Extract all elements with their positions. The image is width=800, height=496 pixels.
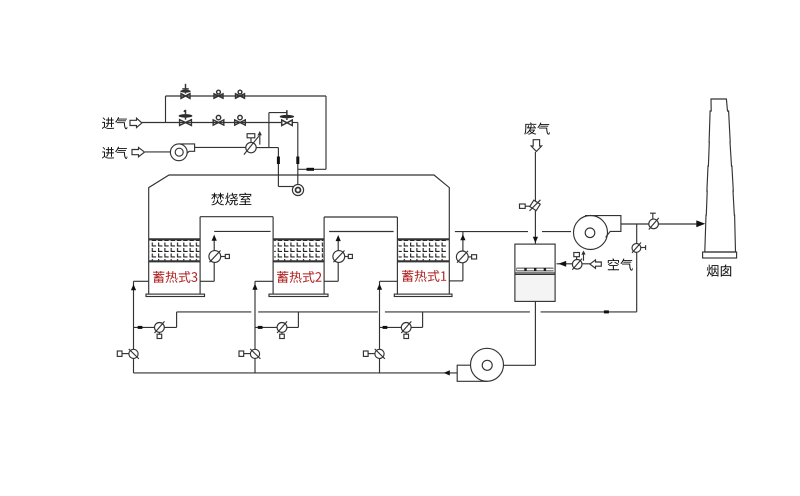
- air block arrow left: [590, 260, 601, 268]
- wire row B line: [142, 122, 281, 124]
- valve VA2 ball: [214, 90, 223, 98]
- valve bed3 riser: [117, 349, 139, 359]
- label 空气: [608, 258, 633, 270]
- valve stack line: [649, 213, 659, 229]
- valve VB4 motorized burner gas valve: [280, 110, 294, 125]
- duct1 inner line: [214, 230, 270, 232]
- wire valve VB4 outlet: [292, 122, 298, 124]
- bed1 right outlet pipe: [449, 232, 465, 281]
- valve bed1 riser: [363, 349, 385, 359]
- wire main fan outlet: [621, 223, 697, 225]
- valve VB2 ball: [213, 115, 224, 125]
- damper valve duct1: [209, 251, 230, 263]
- label 蓄热式2: [277, 271, 321, 283]
- bed3 branch line: [134, 326, 177, 328]
- valve bed2 riser: [239, 349, 260, 359]
- bed3 branch step: [176, 312, 178, 328]
- wire bottom header segment 2: [258, 311, 378, 313]
- valve VB3 ball: [235, 115, 246, 125]
- bed3 right outlet pipe to duct1: [200, 235, 217, 282]
- bed3 left inlet pipe: [131, 281, 149, 373]
- mixer double line: [515, 272, 555, 274]
- flange mark: [277, 157, 280, 165]
- wire bottom header segment 3: [385, 311, 530, 313]
- wire burner gas drop right: [297, 123, 299, 185]
- valve VA1 motorized: [180, 84, 191, 99]
- wire air line: [582, 263, 590, 265]
- label 蓄热式3: [153, 271, 197, 283]
- wire bottom header segment 1: [177, 311, 252, 313]
- bed1 branch line: [380, 326, 423, 328]
- wire row C line: [145, 151, 170, 153]
- mixer box: [516, 275, 555, 301]
- label 废气: [524, 122, 549, 134]
- wire burner feed horizontal: [278, 186, 293, 188]
- valve bed3 branch: [155, 321, 165, 338]
- control valve CV2 air: [572, 251, 585, 270]
- damper valve duct2: [333, 251, 353, 263]
- wire bypass to burner: [298, 168, 326, 170]
- wire pilot horizontal: [269, 112, 287, 114]
- label 蓄热式1: [402, 270, 446, 282]
- inlet block arrow row B: [130, 118, 142, 127]
- main fan: [574, 216, 621, 250]
- wire bottom header segment 4: [541, 311, 637, 313]
- burner ignition port: [292, 184, 303, 195]
- wire header to main fan right segment: [542, 231, 571, 233]
- bed1 left inlet pipe: [377, 281, 398, 373]
- flange mark: [307, 168, 315, 171]
- bed1 left wall: [396, 217, 398, 294]
- bed2 right wall: [323, 217, 325, 294]
- chimney: [703, 99, 737, 258]
- valve bed2 branch: [277, 321, 287, 338]
- air inlet arrow into mixer: [557, 261, 573, 267]
- bed1 branch step: [422, 312, 424, 328]
- damper valve bed1 outlet: [456, 251, 476, 263]
- bed1 checker media: [397, 239, 449, 262]
- bed2 branch line: [255, 326, 298, 328]
- wire control valve outlet: [256, 147, 278, 149]
- bed2 left inlet pipe: [252, 281, 273, 373]
- bed2 branch step: [297, 312, 299, 328]
- bed3 right wall: [199, 217, 201, 294]
- bed1 base flange: [394, 294, 452, 296]
- flange mark: [296, 157, 299, 165]
- wire row A bypass line: [166, 95, 327, 97]
- control valve CV1: [244, 131, 262, 155]
- valve bed1 branch: [401, 321, 411, 338]
- combustion chamber outline: [149, 175, 450, 294]
- duct2 top: [324, 216, 397, 218]
- bed3 checker media: [149, 239, 200, 262]
- wire blower B1 outlet: [195, 146, 246, 148]
- wire burner gas drop left: [277, 148, 279, 187]
- waste gas block arrow down: [531, 140, 542, 152]
- wire bottom purge line: [134, 372, 458, 374]
- wire riser row A to row B: [165, 96, 167, 123]
- wire waste gas drop: [534, 152, 536, 244]
- bed3 base flange: [146, 294, 205, 296]
- label 进气 row C: [102, 147, 127, 159]
- flange mark header: [604, 310, 609, 313]
- inlet block arrow row C: [132, 147, 145, 156]
- wire recirculation drop: [636, 224, 638, 312]
- wire bypass riser right: [325, 96, 327, 169]
- blower B1 combustion air fan: [170, 144, 194, 161]
- label 烟囱: [707, 265, 731, 277]
- valve VA3 ball: [236, 90, 245, 98]
- label 进气 row B: [102, 117, 127, 129]
- wire header to main fan left segment: [455, 231, 528, 233]
- duct1 top: [200, 216, 273, 218]
- label 焚烧室: [211, 193, 251, 206]
- wire purge fan inlet from mixer: [504, 364, 536, 366]
- purge fan: [457, 348, 503, 381]
- duct2 inner line: [329, 231, 394, 233]
- bed2 left wall: [272, 217, 274, 294]
- valve waste gas: [520, 200, 541, 211]
- valve recirculation: [632, 243, 646, 253]
- wire pilot riser: [268, 113, 270, 148]
- bed2 checker media: [273, 239, 324, 262]
- valve VB1 motorized: [179, 110, 193, 125]
- bed2 right outlet pipe to duct2: [324, 235, 341, 281]
- bed2 base flange: [269, 294, 328, 296]
- mixer burner grid: [517, 268, 554, 272]
